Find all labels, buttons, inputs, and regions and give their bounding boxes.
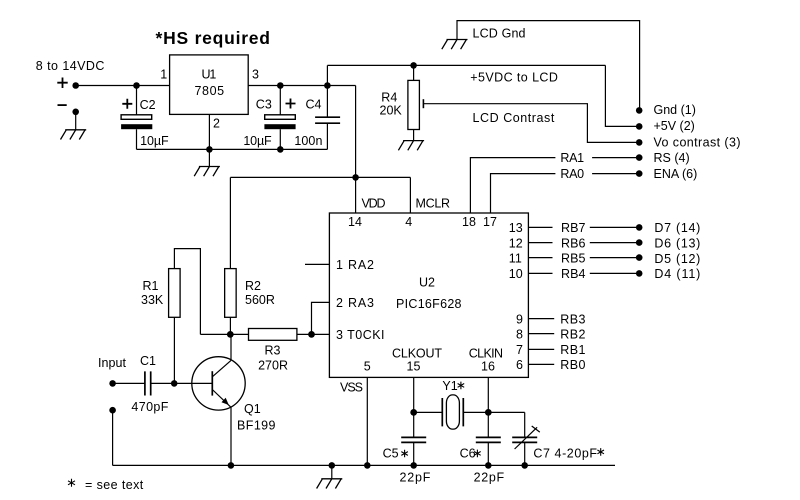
node D5	[636, 254, 643, 261]
wire RA1 left segment and riser pin18	[470, 158, 555, 214]
node collector junction	[227, 331, 234, 338]
capacitor C7 trimmer	[512, 426, 540, 465]
capacitor C1	[145, 371, 151, 395]
resistor R1	[169, 269, 181, 318]
wire +5V riser	[326, 65, 328, 85]
svg-text:1 RA2: 1 RA2	[336, 258, 374, 272]
svg-text:D6 (13): D6 (13)	[654, 236, 700, 250]
svg-text:C7 4-20pF: C7 4-20pF	[533, 446, 597, 460]
IC pin 13 stub	[528, 226, 552, 228]
svg-text:10µF: 10µF	[140, 134, 169, 148]
op-amp U1 regulator box	[170, 55, 249, 115]
node LCD pin +5V	[636, 123, 643, 130]
svg-text:= see text: = see text	[85, 478, 144, 492]
ground U1	[194, 167, 220, 177]
wire VSS lead	[366, 377, 368, 465]
IC pin 7 stub	[528, 348, 554, 350]
svg-text:CLKIN: CLKIN	[469, 346, 503, 360]
R4 wiper bar	[422, 99, 424, 108]
svg-text:U1: U1	[202, 68, 217, 82]
svg-text:6: 6	[516, 358, 523, 372]
svg-text:2: 2	[213, 117, 220, 131]
svg-text:470pF: 470pF	[131, 400, 168, 414]
IC pin 6 stub	[528, 363, 554, 365]
svg-text:R2: R2	[245, 279, 261, 293]
svg-text:22pF: 22pF	[474, 471, 505, 485]
capacitor C2	[121, 86, 152, 150]
wire plus input to U1 pin1	[76, 85, 170, 87]
node CLKOUT crystal	[410, 409, 417, 416]
svg-text:LCD Contrast: LCD Contrast	[473, 111, 555, 125]
node rail ground	[329, 462, 336, 469]
wire MCLR drop	[409, 177, 411, 213]
svg-text:R1: R1	[143, 279, 159, 293]
transistor Q1	[192, 357, 245, 410]
node C3 bottom	[277, 146, 284, 153]
node pin2 rail	[206, 146, 213, 153]
svg-text:D7 (14): D7 (14)	[654, 221, 700, 235]
node emitter rail	[228, 462, 235, 469]
wire C7 drop	[524, 412, 526, 437]
svg-text:11: 11	[509, 252, 522, 266]
wire input ground drop	[112, 410, 114, 465]
capacitor C5	[401, 412, 426, 465]
IC pin 11 stub	[528, 257, 552, 259]
svg-text:22pF: 22pF	[400, 471, 431, 485]
svg-text:PIC16F628: PIC16F628	[396, 297, 462, 311]
wire R2 pullup riser	[229, 177, 231, 268]
node C3 top	[277, 82, 284, 89]
svg-text:8 to 14VDC: 8 to 14VDC	[36, 59, 105, 73]
node C6 rail	[485, 462, 492, 469]
wire RB4 to D4	[590, 272, 636, 274]
svg-text:Vo contrast (3): Vo contrast (3)	[654, 135, 741, 149]
IC pin 10 stub	[528, 272, 552, 274]
IC U2 box	[329, 213, 528, 377]
wire input to C1	[113, 382, 145, 384]
ground input	[60, 130, 86, 140]
svg-text:33K: 33K	[141, 293, 164, 307]
svg-text:1: 1	[160, 67, 167, 81]
svg-text:RB4: RB4	[561, 267, 585, 281]
svg-text:BF199: BF199	[237, 418, 276, 432]
svg-text:270R: 270R	[258, 358, 288, 372]
node R4 top	[410, 62, 417, 69]
IC pin 12 stub	[528, 242, 552, 244]
svg-text:14: 14	[348, 215, 362, 229]
svg-text:R3: R3	[265, 344, 281, 358]
svg-text:13: 13	[509, 221, 523, 235]
svg-text:C5: C5	[383, 446, 399, 460]
svg-text:20K: 20K	[380, 103, 403, 117]
svg-text:VSS: VSS	[340, 380, 363, 394]
wire crystal right	[463, 411, 524, 413]
node D6	[636, 239, 643, 246]
resistor R3	[249, 329, 297, 341]
svg-text:C2: C2	[140, 98, 156, 112]
svg-text:10µF: 10µF	[243, 134, 272, 148]
svg-text:3: 3	[252, 67, 259, 81]
wire rail to ground	[331, 465, 333, 478]
C3 polarity plus	[286, 99, 296, 109]
star C6	[474, 450, 481, 458]
svg-text:3 T0CKI: 3 T0CKI	[336, 328, 385, 342]
svg-text:7805: 7805	[195, 84, 225, 98]
capacitor C3	[264, 86, 295, 150]
minus terminal symbol	[58, 104, 67, 106]
ground center	[317, 479, 343, 489]
node input signal	[109, 380, 116, 387]
wire collector lead	[230, 334, 232, 360]
svg-text:16: 16	[481, 359, 495, 373]
wire +5V drop to LCD connector	[605, 65, 636, 126]
star Y1	[458, 382, 465, 390]
svg-text:MCLR: MCLR	[416, 197, 451, 211]
node LCD pin Vo	[636, 139, 643, 146]
svg-text:10: 10	[509, 267, 523, 281]
node input ground	[109, 407, 116, 414]
node crystal CLKIN	[485, 409, 492, 416]
svg-text:CLKOUT: CLKOUT	[392, 346, 442, 360]
node C4 top	[324, 82, 331, 89]
C2 polarity plus	[122, 99, 132, 109]
svg-text:*HS required: *HS required	[156, 28, 271, 48]
svg-text:+5VDC to LCD: +5VDC to LCD	[470, 71, 558, 85]
wire ground rail under regulator	[137, 148, 328, 150]
node VDD junction	[352, 174, 359, 181]
ground R4	[398, 141, 424, 151]
svg-text:D4 (11): D4 (11)	[654, 267, 700, 281]
svg-text:C4: C4	[306, 97, 322, 111]
svg-text:LCD Gnd: LCD Gnd	[473, 27, 526, 41]
wire R1 bottom lead	[173, 317, 175, 383]
node minus input	[72, 109, 79, 116]
svg-text:18: 18	[462, 215, 476, 229]
svg-text:9: 9	[516, 312, 523, 326]
wire minus to ground	[75, 112, 77, 130]
IC pin 9 stub	[528, 318, 554, 320]
wire CLKIN lead	[487, 377, 489, 412]
node C7 rail	[521, 462, 528, 469]
ground LCD gnd	[442, 40, 468, 50]
IC pin 8 stub	[528, 333, 554, 335]
node plus input	[72, 82, 79, 89]
plus terminal symbol	[57, 78, 67, 89]
svg-text:Gnd (1): Gnd (1)	[654, 103, 696, 117]
wire collector rail	[200, 333, 248, 335]
wire VDD MCLR rail	[230, 176, 410, 178]
wire RB6 to D6	[590, 242, 636, 244]
capacitor C4	[315, 86, 340, 150]
svg-text:C6: C6	[460, 446, 476, 460]
svg-text:7: 7	[516, 343, 523, 357]
svg-text:15: 15	[407, 359, 421, 373]
resistor R2	[225, 269, 237, 318]
wire LCD gnd rail	[457, 21, 640, 111]
star see text note	[68, 479, 75, 487]
node D7	[636, 224, 643, 231]
svg-text:Y1: Y1	[442, 379, 457, 393]
star C5	[401, 450, 408, 458]
svg-text:RS (4): RS (4)	[654, 151, 690, 165]
capacitor C6	[476, 412, 501, 465]
wire crystal left	[414, 411, 443, 413]
star C7	[597, 448, 604, 456]
potentiometer R4	[408, 65, 420, 140]
svg-text:RB3: RB3	[560, 312, 585, 326]
wire RA0 left segment and riser pin17	[491, 174, 556, 214]
IC pin 2 stub and riser	[312, 302, 330, 334]
svg-text:RB5: RB5	[561, 252, 585, 266]
wire emitter lead	[230, 407, 232, 465]
node LCD pin Gnd	[636, 107, 643, 114]
wire RB5 to D5	[590, 257, 636, 259]
svg-text:Input: Input	[98, 356, 127, 370]
wire wiper LCD contrast	[423, 104, 636, 143]
wire U1 output rail	[248, 85, 355, 87]
wire ground rail	[113, 464, 615, 466]
svg-text:2 RA3: 2 RA3	[336, 296, 374, 310]
wire R1 top jog	[174, 249, 200, 335]
wire R2 bottom lead	[229, 317, 231, 334]
wire R3 to T0CKI	[297, 333, 330, 335]
wire +5V top rail	[327, 64, 605, 66]
wire CLKOUT lead	[413, 377, 415, 412]
wire C1 to base	[151, 382, 213, 384]
node T0CKI	[308, 331, 315, 338]
svg-text:RA1: RA1	[560, 151, 584, 165]
svg-text:8: 8	[516, 328, 523, 342]
svg-text:C1: C1	[140, 354, 156, 368]
svg-text:RB1: RB1	[560, 343, 585, 357]
svg-text:U2: U2	[419, 276, 435, 290]
wire U1 pin2 lead	[208, 114, 210, 166]
wire RB7 to D7	[590, 226, 636, 228]
svg-text:4: 4	[405, 215, 412, 229]
IC pin 1 stub	[305, 263, 329, 265]
svg-text:C3: C3	[256, 97, 272, 111]
svg-text:17: 17	[483, 215, 497, 229]
svg-text:5: 5	[364, 359, 371, 373]
wire RA1 to RS node	[592, 157, 636, 159]
svg-text:VDD: VDD	[362, 197, 386, 211]
svg-text:ENA (6): ENA (6)	[654, 167, 698, 181]
svg-text:RB7: RB7	[561, 221, 585, 235]
svg-text:100n: 100n	[294, 134, 322, 148]
svg-text:D5 (12): D5 (12)	[654, 252, 700, 266]
svg-text:12: 12	[509, 236, 523, 250]
svg-text:RB2: RB2	[560, 328, 585, 342]
node C2 top	[133, 82, 140, 89]
svg-text:RB0: RB0	[560, 358, 585, 372]
wire RA0 to ENA node	[592, 173, 636, 175]
svg-text:RA0: RA0	[560, 167, 584, 181]
svg-text:RB6: RB6	[561, 236, 585, 250]
node VSS rail	[364, 462, 371, 469]
node D4	[636, 270, 643, 277]
svg-text:Q1: Q1	[244, 402, 261, 416]
node base R1 junction	[171, 380, 178, 387]
svg-text:560R: 560R	[245, 293, 275, 307]
svg-text:+5V (2): +5V (2)	[654, 119, 695, 133]
node LCD pin ENA	[636, 170, 643, 177]
crystal Y1	[442, 395, 463, 429]
wire VDD riser	[355, 86, 357, 214]
node C5 rail	[410, 462, 417, 469]
node LCD pin RS	[636, 154, 643, 161]
